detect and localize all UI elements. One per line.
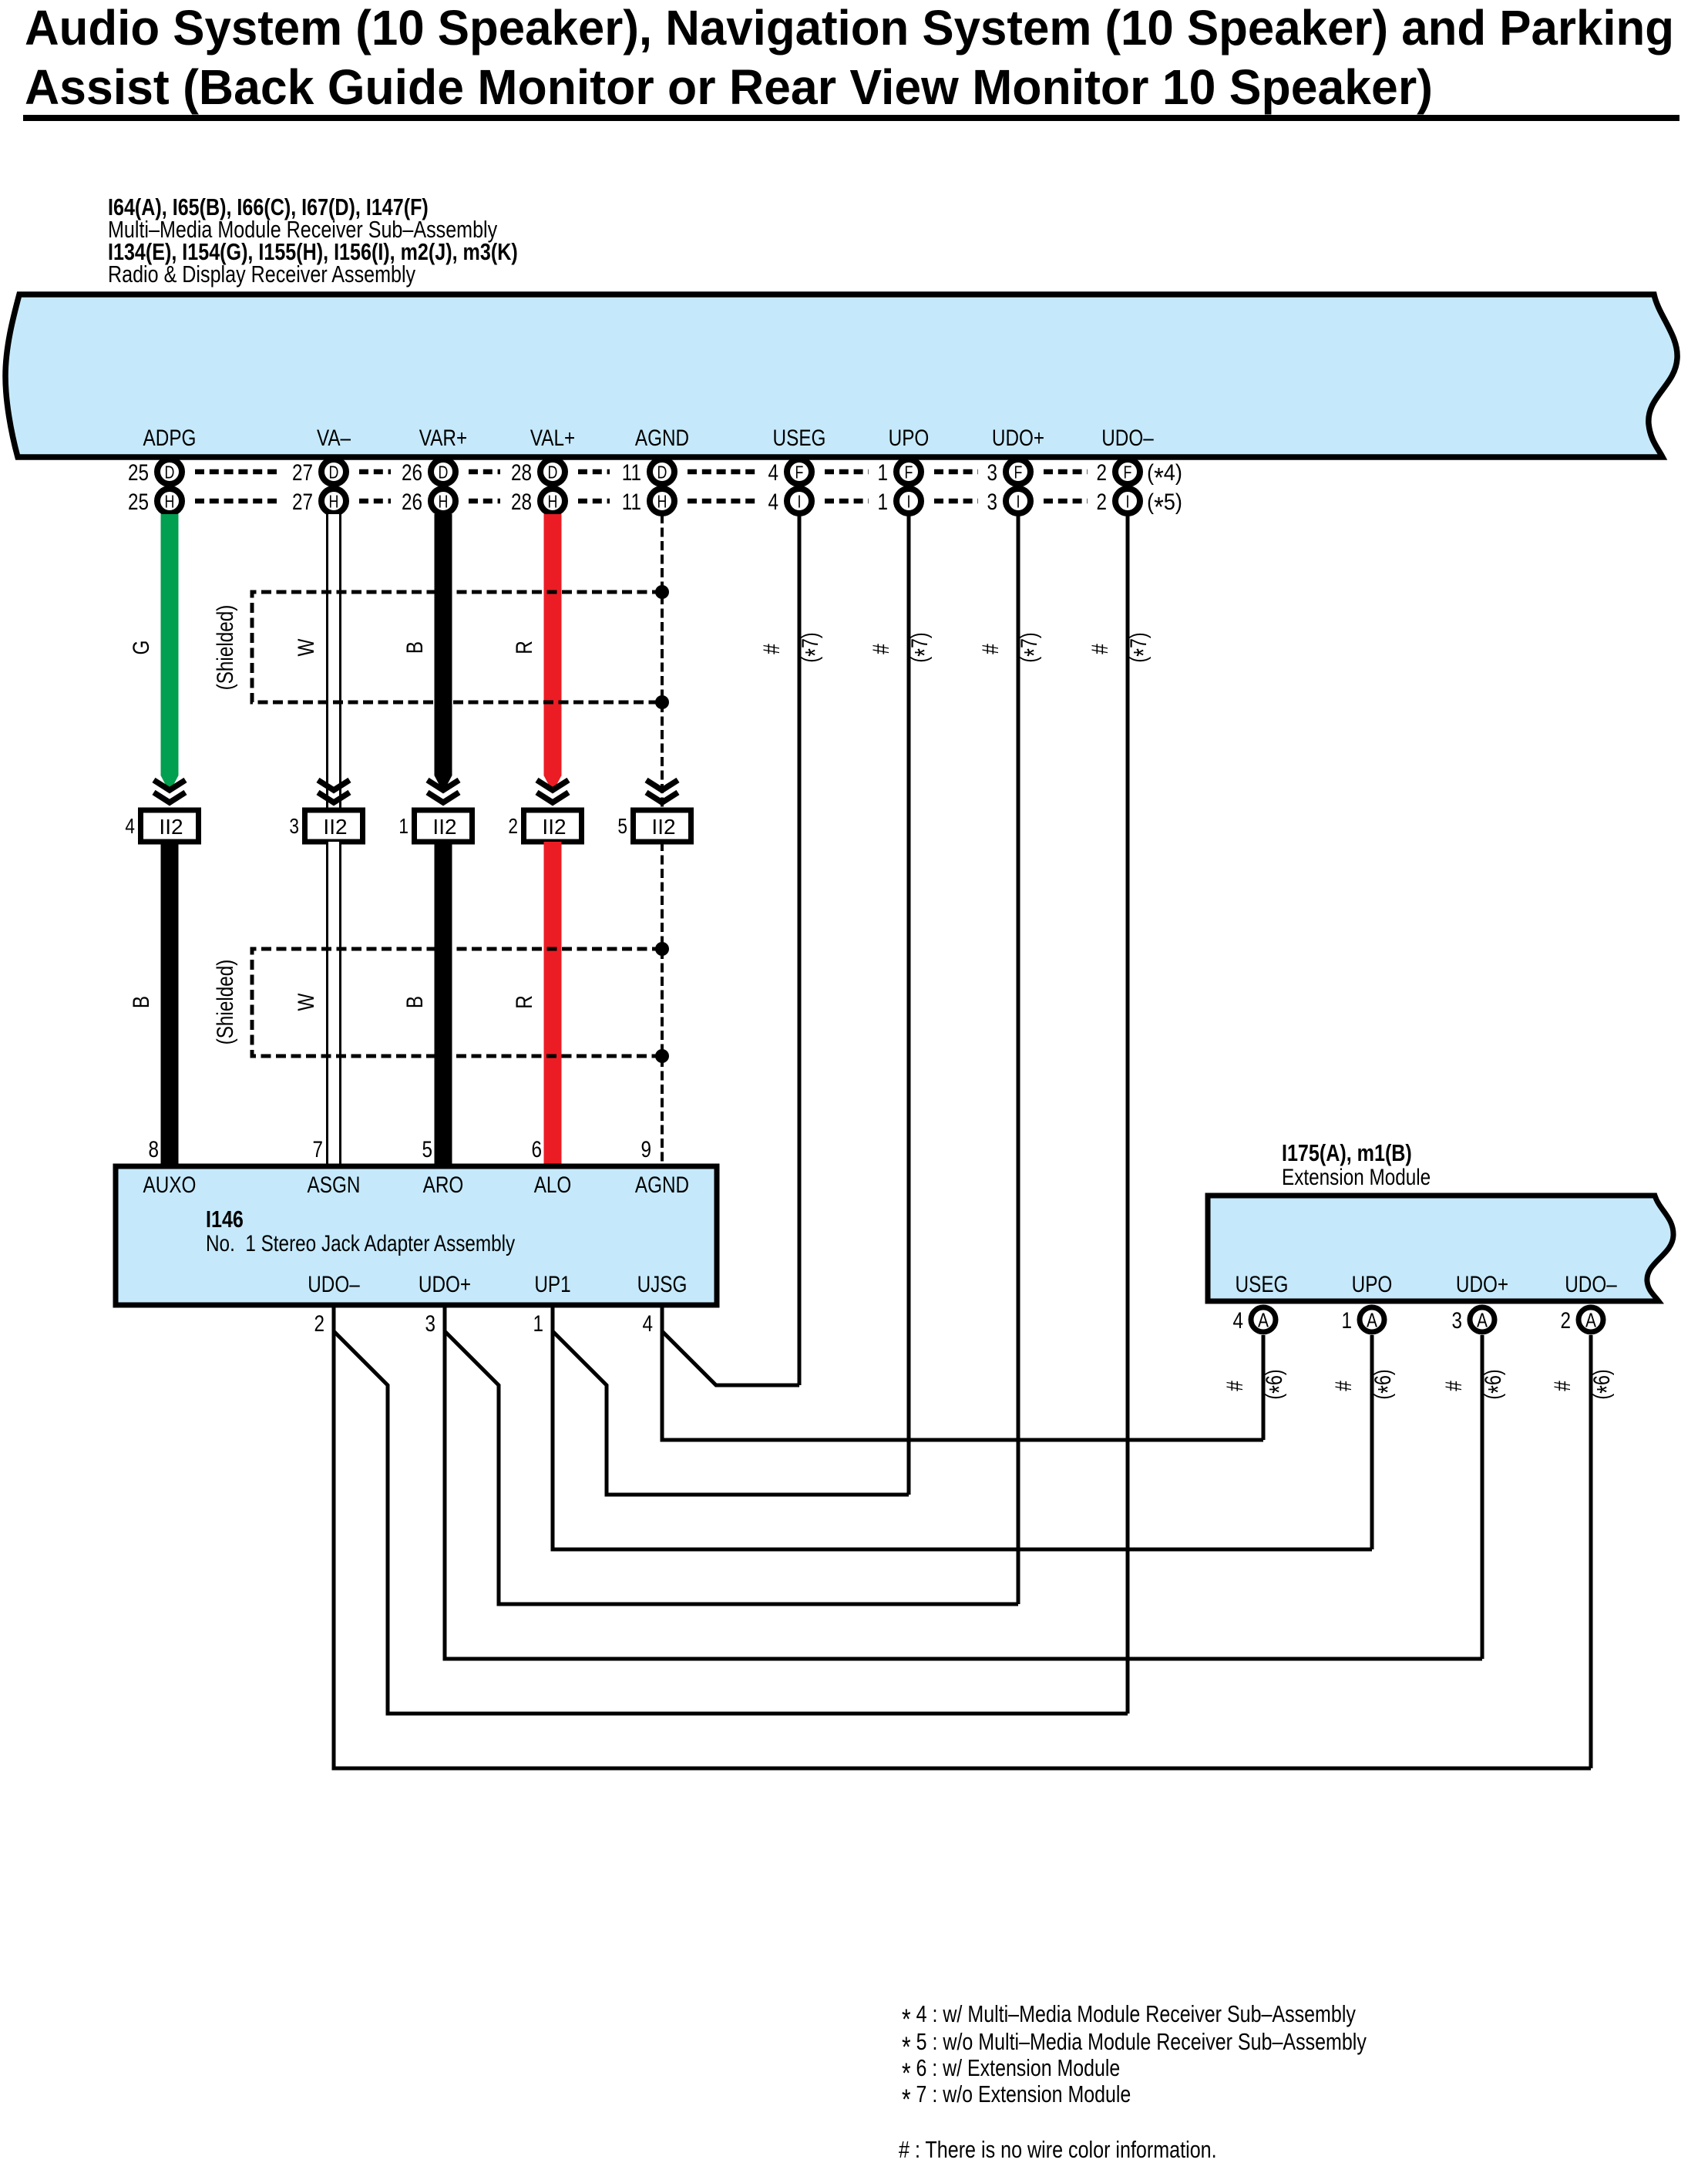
svg-text:H: H <box>548 491 558 511</box>
svg-text:2: 2 <box>1561 1308 1572 1334</box>
svg-text:#: # <box>1550 1381 1575 1391</box>
svg-text:27: 27 <box>292 489 313 515</box>
svg-text:(*5): (*5) <box>1147 489 1182 523</box>
svg-text:A: A <box>1258 1308 1269 1331</box>
svg-text:AGND: AGND <box>635 425 689 451</box>
svg-text:F: F <box>905 462 913 482</box>
svg-text:7: 7 <box>313 1137 324 1162</box>
svg-text:#: # <box>1088 644 1113 654</box>
svg-text:Radio & Display Receiver Assem: Radio & Display Receiver Assembly <box>108 261 416 288</box>
svg-text:3: 3 <box>1452 1308 1463 1334</box>
svg-text:UDO+: UDO+ <box>992 425 1044 451</box>
svg-text:A: A <box>1367 1308 1378 1331</box>
svg-text:8: 8 <box>149 1137 160 1162</box>
svg-text:3: 3 <box>987 489 998 515</box>
svg-text:1: 1 <box>878 489 889 515</box>
svg-text:B: B <box>402 996 428 1008</box>
svg-text:VAL+: VAL+ <box>530 425 575 451</box>
svg-text:ADPG: ADPG <box>143 425 197 451</box>
svg-text:4: 4 <box>768 489 779 515</box>
svg-text:Audio System (10 Speaker), Nav: Audio System (10 Speaker), Navigation Sy… <box>25 0 1674 55</box>
svg-text:A: A <box>1477 1308 1488 1331</box>
svg-text:3: 3 <box>289 814 299 838</box>
svg-text:(*6): (*6) <box>1481 1369 1514 1399</box>
svg-text:D: D <box>165 462 175 482</box>
svg-text:26: 26 <box>402 489 422 515</box>
svg-text:2: 2 <box>314 1311 325 1337</box>
svg-text:(*7): (*7) <box>1126 632 1159 662</box>
svg-text:II2: II2 <box>323 815 347 839</box>
svg-text:2: 2 <box>1097 460 1108 486</box>
svg-text:No. 1 Stereo Jack Adapter Ass: No. 1 Stereo Jack Adapter Assembly <box>206 1231 515 1256</box>
svg-text:D: D <box>329 462 339 482</box>
svg-text:F: F <box>795 462 804 482</box>
svg-text:UDO–: UDO– <box>308 1272 360 1297</box>
svg-text:UJSG: UJSG <box>637 1272 688 1297</box>
svg-text:1: 1 <box>398 814 409 838</box>
svg-text:28: 28 <box>511 489 532 515</box>
svg-text:3: 3 <box>425 1311 436 1337</box>
svg-text:5: 5 <box>422 1137 433 1162</box>
svg-text:R: R <box>512 995 537 1009</box>
svg-text:AGND: AGND <box>635 1172 689 1198</box>
svg-text:W: W <box>294 993 319 1011</box>
svg-text:II2: II2 <box>651 815 675 839</box>
svg-text:(*7): (*7) <box>1017 632 1050 662</box>
svg-text:I146: I146 <box>206 1206 244 1233</box>
svg-text:UDO+: UDO+ <box>1456 1272 1508 1297</box>
svg-text:D: D <box>439 462 449 482</box>
svg-text:Assist (Back Guide Monitor or: Assist (Back Guide Monitor or Rear View … <box>25 59 1433 115</box>
svg-text:27: 27 <box>292 460 313 486</box>
svg-text:I175(A), m1(B): I175(A), m1(B) <box>1282 1139 1412 1166</box>
svg-text:W: W <box>294 638 319 656</box>
svg-text:USEG: USEG <box>1236 1272 1289 1297</box>
svg-text:25: 25 <box>128 460 149 486</box>
svg-text:II2: II2 <box>159 815 183 839</box>
svg-text:(Shielded): (Shielded) <box>213 605 238 691</box>
svg-text:(Shielded): (Shielded) <box>213 960 238 1045</box>
svg-text:4: 4 <box>768 460 779 486</box>
svg-text:1: 1 <box>1342 1308 1353 1334</box>
svg-text:25: 25 <box>128 489 149 515</box>
svg-text:5: 5 <box>617 814 627 838</box>
svg-text:ASGN: ASGN <box>308 1172 361 1198</box>
svg-text:Extension Module: Extension Module <box>1282 1165 1431 1190</box>
svg-text:(*6): (*6) <box>1262 1369 1295 1399</box>
svg-text:ARO: ARO <box>423 1172 464 1198</box>
svg-text:D: D <box>548 462 558 482</box>
svg-text:H: H <box>329 491 339 511</box>
svg-text:2: 2 <box>508 814 518 838</box>
svg-text:I: I <box>798 491 802 511</box>
svg-text:9: 9 <box>641 1137 652 1162</box>
svg-text:#: # <box>1331 1381 1357 1391</box>
svg-text:VAR+: VAR+ <box>419 425 467 451</box>
svg-text:AUXO: AUXO <box>143 1172 197 1198</box>
svg-text:I: I <box>1126 491 1130 511</box>
svg-text:H: H <box>439 491 449 511</box>
svg-text:11: 11 <box>622 489 641 515</box>
svg-text:# : There is no wire color inf: # : There is no wire color information. <box>899 2136 1217 2163</box>
svg-text:G: G <box>129 641 154 655</box>
svg-text:4: 4 <box>1233 1308 1244 1334</box>
svg-text:3: 3 <box>987 460 998 486</box>
svg-text:UDO+: UDO+ <box>419 1272 471 1297</box>
svg-text:#: # <box>1222 1381 1248 1391</box>
svg-text:USEG: USEG <box>773 425 826 451</box>
svg-text:II2: II2 <box>542 815 566 839</box>
svg-text:(*6): (*6) <box>1370 1369 1404 1399</box>
svg-text:A: A <box>1585 1308 1597 1331</box>
svg-text:VA–: VA– <box>317 425 351 451</box>
svg-text:11: 11 <box>622 460 641 486</box>
svg-text:(*7): (*7) <box>907 632 940 662</box>
svg-text:I: I <box>907 491 911 511</box>
svg-text:I: I <box>1017 491 1020 511</box>
svg-text:F: F <box>1124 462 1132 482</box>
svg-text:28: 28 <box>511 460 532 486</box>
svg-text:F: F <box>1014 462 1023 482</box>
svg-text:1: 1 <box>533 1311 544 1337</box>
svg-text:UPO: UPO <box>889 425 930 451</box>
svg-text:(*7): (*7) <box>798 632 831 662</box>
svg-text:(*4): (*4) <box>1147 460 1182 493</box>
svg-text:H: H <box>657 491 667 511</box>
svg-text:4: 4 <box>125 814 135 838</box>
svg-text:* 7 : w/o Extension Module: * 7 : w/o Extension Module <box>902 2080 1131 2115</box>
svg-text:H: H <box>165 491 175 511</box>
svg-text:II2: II2 <box>432 815 456 839</box>
svg-text:ALO: ALO <box>534 1172 572 1198</box>
svg-text:#: # <box>1441 1381 1467 1391</box>
svg-text:UDO–: UDO– <box>1565 1272 1617 1297</box>
svg-text:(*6): (*6) <box>1589 1369 1622 1399</box>
svg-text:B: B <box>402 641 428 654</box>
svg-text:1: 1 <box>878 460 889 486</box>
svg-text:B: B <box>129 996 154 1008</box>
svg-text:#: # <box>978 644 1004 654</box>
svg-text:D: D <box>657 462 667 482</box>
svg-text:26: 26 <box>402 460 422 486</box>
svg-text:UPO: UPO <box>1352 1272 1393 1297</box>
svg-text:4: 4 <box>643 1311 654 1337</box>
svg-text:R: R <box>512 641 537 654</box>
svg-text:#: # <box>759 644 785 654</box>
svg-text:UDO–: UDO– <box>1101 425 1154 451</box>
svg-text:2: 2 <box>1097 489 1108 515</box>
svg-text:UP1: UP1 <box>534 1272 570 1297</box>
svg-text:#: # <box>869 644 894 654</box>
svg-text:6: 6 <box>532 1137 543 1162</box>
